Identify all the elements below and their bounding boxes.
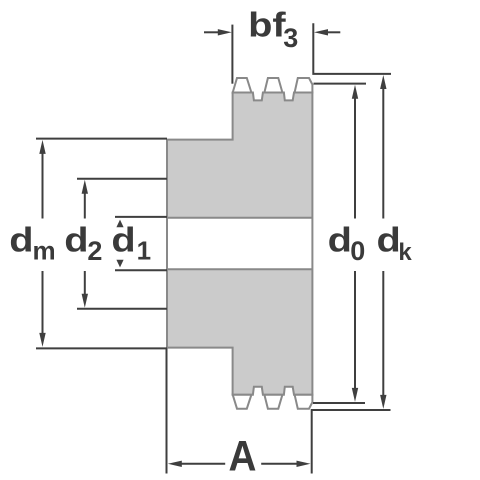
svg-text:d: d	[9, 221, 33, 259]
svg-text:0: 0	[350, 236, 365, 266]
svg-text:d: d	[328, 221, 352, 259]
svg-text:2: 2	[87, 236, 102, 266]
svg-text:3: 3	[283, 23, 298, 53]
svg-text:1: 1	[137, 236, 151, 266]
svg-text:d: d	[111, 221, 135, 259]
svg-text:d: d	[377, 221, 401, 259]
svg-text:m: m	[33, 235, 56, 265]
svg-text:A: A	[229, 432, 257, 480]
svg-text:d: d	[64, 221, 88, 259]
svg-text:k: k	[398, 239, 412, 266]
svg-text:bf: bf	[248, 6, 286, 44]
